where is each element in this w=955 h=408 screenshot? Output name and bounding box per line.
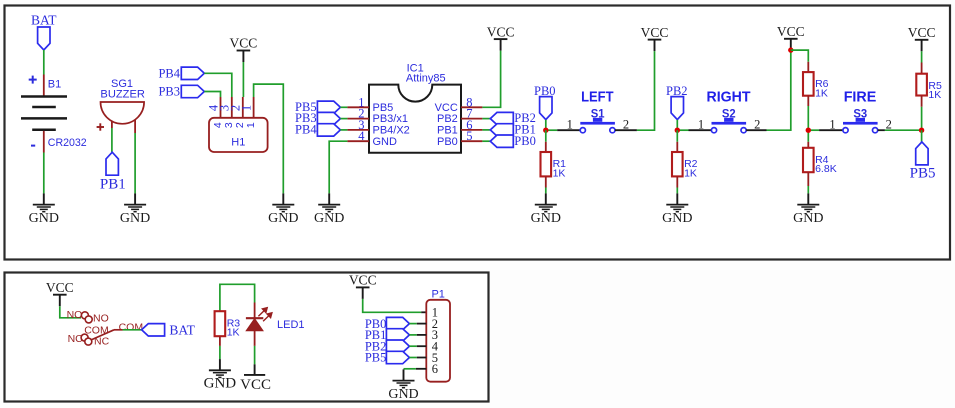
wire PB0 down to node xyxy=(545,120,547,130)
resistor R3 xyxy=(215,311,226,336)
svg-text:PB3/x1: PB3/x1 xyxy=(373,113,408,125)
connector P1 body xyxy=(426,300,450,382)
pin stub P1 pin 5 xyxy=(417,357,427,359)
ground under SG1 xyxy=(120,193,150,226)
wire PB4 flag to IC1 xyxy=(340,129,347,131)
terminal PB3 at IC1 xyxy=(317,112,340,124)
pin stub IC1 pin 5 xyxy=(461,140,482,142)
svg-text:LEFT: LEFT xyxy=(581,89,613,106)
junction VCC/R6 branch xyxy=(788,47,793,52)
terminal PB0 at IC1 xyxy=(490,135,513,147)
wire S3 pin 2 to node PB5 xyxy=(885,129,922,131)
push button S3 contact 2 xyxy=(873,128,878,133)
power VCC at P1 xyxy=(349,273,377,299)
wire H1 pin 1 to ground xyxy=(254,84,284,193)
svg-text:BUZZER: BUZZER xyxy=(100,89,145,101)
svg-text:PB4: PB4 xyxy=(158,66,180,80)
pin stub S1 pin 2 xyxy=(615,129,637,131)
power VCC at H1 xyxy=(230,36,258,62)
pin stub IC1 pin 1 xyxy=(347,106,369,108)
junction R6/R4/S3 xyxy=(806,128,811,133)
resistor R4 xyxy=(803,148,814,172)
svg-text:S2: S2 xyxy=(722,107,736,121)
svg-text:1: 1 xyxy=(698,118,704,132)
terminal PB2 above S2 xyxy=(671,97,683,120)
pin stub P1 pin 3 xyxy=(417,334,427,336)
terminal PB1 at IC1 xyxy=(490,124,513,136)
terminal PB0 above S1 xyxy=(540,97,552,120)
wire IC1 GND pin to ground xyxy=(329,141,347,193)
svg-text:1K: 1K xyxy=(553,167,566,179)
svg-text:1K: 1K xyxy=(928,89,941,101)
pin stub IC1 pin 6 xyxy=(461,129,482,131)
switch contact NC pole 2 xyxy=(85,338,92,345)
wire S1 pin 2 to VCC xyxy=(637,51,655,130)
svg-text:PB4/X2: PB4/X2 xyxy=(373,125,410,137)
resistor R1 xyxy=(541,152,552,176)
svg-text:PB0: PB0 xyxy=(437,136,458,148)
push button S1 actuator xyxy=(580,118,615,125)
junction S3/R5/PB5 xyxy=(919,128,924,133)
LED1 light arrows xyxy=(258,308,272,322)
pin stub IC1 pin 3 xyxy=(347,129,369,131)
ground under IC1 xyxy=(314,193,344,226)
svg-text:GND: GND xyxy=(204,376,237,392)
svg-text:VCC: VCC xyxy=(46,280,74,295)
wire B1 negative to ground xyxy=(43,153,45,194)
pin stub R6 top xyxy=(807,62,809,72)
pin stub R2 bottom xyxy=(676,176,678,187)
terminal PB5 at IC1 xyxy=(317,101,340,113)
pin stub IC1 pin 8 xyxy=(461,106,482,108)
ground under R2 xyxy=(662,193,692,226)
svg-text:GND: GND xyxy=(388,387,418,402)
pin stub R3 bottom xyxy=(219,336,221,346)
wire PB3 flag to IC1 xyxy=(340,118,347,120)
svg-text:PB2: PB2 xyxy=(666,84,688,98)
svg-text:PB1: PB1 xyxy=(437,125,458,137)
pin stub R5 bottom xyxy=(921,96,923,107)
diode LED1 body xyxy=(246,318,263,331)
ground under R1 xyxy=(531,193,561,226)
power VCC at switch xyxy=(46,280,74,306)
wire BAT to B1 positive xyxy=(43,50,45,75)
wire R1 to ground xyxy=(545,188,547,194)
terminal PB5 at P1 xyxy=(386,351,409,363)
svg-text:1: 1 xyxy=(829,118,835,132)
wire node to S3 pin 1 xyxy=(808,129,819,131)
power VCC at IC1 xyxy=(487,24,515,50)
battery B1 minus sign xyxy=(31,145,35,147)
ground under R3 xyxy=(204,359,237,392)
wire IC1 to PB2 flag xyxy=(482,118,490,120)
wire PB5 flag to P1 pin 5 xyxy=(409,357,416,359)
pin stub IC1 pin 7 xyxy=(461,118,482,120)
pin stub S3 pin 2 xyxy=(878,129,885,131)
svg-text:PB4: PB4 xyxy=(295,123,317,137)
svg-text:BAT: BAT xyxy=(31,13,57,28)
svg-text:CR2032: CR2032 xyxy=(48,137,87,149)
svg-text:VCC: VCC xyxy=(487,24,515,39)
power VCC below LED1 xyxy=(240,364,271,393)
terminal PB0 at P1 xyxy=(386,317,409,329)
svg-text:VCC: VCC xyxy=(908,25,936,40)
wire buzzer to PB1 xyxy=(111,128,113,152)
svg-text:1K: 1K xyxy=(684,167,697,179)
svg-text:PB5: PB5 xyxy=(365,351,387,365)
svg-text:BAT: BAT xyxy=(169,322,195,337)
pin stub S3 pin 1 xyxy=(819,129,843,131)
wire PB0 flag to P1 pin 2 xyxy=(409,323,416,325)
terminal PB2 at P1 xyxy=(386,340,409,352)
connector H1 body xyxy=(209,118,268,152)
svg-text:NO: NO xyxy=(67,309,83,321)
buzzer SG1 body xyxy=(101,102,145,124)
svg-text:COM: COM xyxy=(119,321,144,333)
push button S3 actuator xyxy=(843,118,878,125)
wire R5 to node xyxy=(921,107,923,130)
pin stub H1 pin 2 xyxy=(242,97,244,118)
switch actuator arm xyxy=(91,330,114,340)
pin stub H1 pin 1 xyxy=(253,97,255,118)
svg-text:VCC: VCC xyxy=(240,377,271,393)
wire VCC to R5 xyxy=(921,51,923,62)
terminal PB5 below R5 xyxy=(916,142,928,165)
pin stub R4 bottom xyxy=(807,172,809,186)
svg-text:GND: GND xyxy=(373,136,398,148)
svg-text:PB3: PB3 xyxy=(158,85,180,99)
switch contact NO pole 2 xyxy=(85,316,92,323)
power VCC at S1 xyxy=(641,25,669,51)
svg-text:6: 6 xyxy=(432,362,438,376)
switch contact NO pole 1 xyxy=(81,312,88,319)
svg-text:1K: 1K xyxy=(815,88,828,100)
svg-text:B1: B1 xyxy=(48,79,61,91)
push button S3 contact 1 xyxy=(843,128,848,133)
pin stub B1 negative xyxy=(43,131,45,153)
pin stub P1 pin 1 xyxy=(421,311,426,313)
ground under P1 xyxy=(388,369,418,402)
svg-text:4: 4 xyxy=(212,122,224,128)
pin stub H1 pin 4 xyxy=(220,97,222,118)
wire IC1 to PB0 flag xyxy=(482,140,490,142)
svg-text:GND: GND xyxy=(29,211,59,226)
terminal PB2 at IC1 xyxy=(490,112,513,124)
svg-text:VCC: VCC xyxy=(435,102,458,114)
terminal PB1 at P1 xyxy=(386,329,409,341)
terminal PB4 at H1 xyxy=(181,67,204,79)
pin stub IC1 pin 2 xyxy=(347,118,369,120)
svg-text:PB1: PB1 xyxy=(100,176,126,192)
pin stub R1 bottom xyxy=(545,176,547,187)
push button S1 contact 1 xyxy=(580,128,585,133)
svg-text:1: 1 xyxy=(239,105,253,111)
pin stub B1 positive xyxy=(43,75,45,97)
buzzer SG1 plus sign xyxy=(97,123,104,130)
svg-text:1K: 1K xyxy=(227,327,240,339)
ground under H1 pin 1 xyxy=(268,193,298,226)
wire PB3 to H1 pin 4 xyxy=(204,92,220,98)
battery B1 plus sign xyxy=(29,76,37,84)
wire switch COM to BAT xyxy=(123,329,142,331)
pin stub S2 pin 2 xyxy=(746,129,766,131)
wire S2 pin 2 to VCC xyxy=(767,50,791,130)
wire IC1 to PB1 flag xyxy=(482,129,490,131)
wire R6 to node xyxy=(807,106,809,130)
wire node to R1 xyxy=(545,130,547,142)
wire R2 to ground xyxy=(676,188,678,194)
svg-text:4: 4 xyxy=(358,129,365,143)
power VCC at S2/R6 xyxy=(777,24,805,50)
battery B1 plates xyxy=(21,97,67,130)
wire LED1 to VCC rail xyxy=(254,346,256,364)
wire VCC junction to R6 xyxy=(791,50,809,62)
svg-text:P1: P1 xyxy=(431,289,444,301)
pin stub P1 pin 2 xyxy=(417,323,427,325)
svg-text:H1: H1 xyxy=(231,136,245,148)
wire IC1 VCC pin to power xyxy=(482,51,500,108)
svg-text:PB2: PB2 xyxy=(437,113,458,125)
svg-text:VCC: VCC xyxy=(349,273,377,288)
terminal BAT at switch xyxy=(142,324,165,336)
terminal PB4 at IC1 xyxy=(317,124,340,136)
svg-text:Attiny85: Attiny85 xyxy=(406,73,446,85)
svg-text:5: 5 xyxy=(466,129,472,143)
svg-text:PB5: PB5 xyxy=(373,102,394,114)
wire R3 to ground xyxy=(219,346,221,359)
junction PB2/R2/S2 xyxy=(675,128,680,133)
pin stub buzzer left xyxy=(111,121,113,128)
terminal BAT xyxy=(38,27,50,50)
svg-text:GND: GND xyxy=(662,211,692,226)
svg-text:GND: GND xyxy=(314,211,344,226)
wire node down to PB5 xyxy=(921,130,923,142)
pin stub LED1 top xyxy=(254,303,256,319)
pin stub IC1 pin 4 xyxy=(347,140,369,142)
svg-text:GND: GND xyxy=(268,211,298,226)
bottom sheet border frame xyxy=(5,273,489,402)
wire PB2 flag to P1 pin 4 xyxy=(409,345,416,347)
pin stub R5 top xyxy=(921,63,923,74)
resistor R5 xyxy=(916,74,927,96)
svg-text:VCC: VCC xyxy=(641,25,669,40)
pin stub R6 bottom xyxy=(807,96,809,106)
wire R4 to ground xyxy=(807,186,809,193)
pin stub LED1 bottom xyxy=(254,331,256,346)
pin stub R2 top xyxy=(676,142,678,152)
terminal PB1 xyxy=(106,152,118,175)
svg-text:VCC: VCC xyxy=(230,36,258,51)
wire node to S2 pin 1 xyxy=(677,129,688,131)
push button S1 contact 2 xyxy=(610,128,615,133)
push button S2 actuator xyxy=(712,118,747,125)
wire node to R2 xyxy=(676,130,678,142)
top sheet border frame xyxy=(5,6,951,260)
svg-text:RIGHT: RIGHT xyxy=(707,89,751,106)
wire VCC to switch NO xyxy=(60,306,81,318)
pin stub S2 pin 1 xyxy=(689,129,712,131)
wire node to S1 pin 1 xyxy=(546,129,557,131)
wire buzzer to ground xyxy=(134,133,136,193)
pin stub R4 top xyxy=(807,142,809,148)
svg-text:NO: NO xyxy=(93,312,109,324)
ground under B1 xyxy=(29,193,59,226)
svg-text:FIRE: FIRE xyxy=(844,89,877,106)
power VCC at R5 xyxy=(908,25,936,51)
wire VCC to H1 pin 2 xyxy=(242,62,244,97)
svg-text:GND: GND xyxy=(120,211,150,226)
push button S2 contact 2 xyxy=(741,128,746,133)
resistor R2 xyxy=(672,152,683,176)
svg-text:PB0: PB0 xyxy=(514,134,536,148)
wire VCC to P1 pin 1 xyxy=(363,299,422,312)
wire P1 pin 6 to ground xyxy=(404,368,416,370)
pin stub P1 pin 4 xyxy=(417,345,427,347)
wire node to R4 xyxy=(807,130,809,142)
svg-text:S1: S1 xyxy=(591,107,605,121)
pin stub H1 pin 3 xyxy=(231,97,233,118)
svg-text:GND: GND xyxy=(793,211,823,226)
svg-text:VCC: VCC xyxy=(777,24,805,39)
pin stub buzzer right xyxy=(134,120,136,133)
svg-text:LED1: LED1 xyxy=(277,319,305,331)
svg-text:S3: S3 xyxy=(853,107,867,121)
switch COM stub xyxy=(114,329,123,331)
wire PB2 down to node xyxy=(676,120,678,130)
wire PB5 flag to IC1 xyxy=(340,106,347,108)
svg-text:GND: GND xyxy=(531,211,561,226)
wire PB1 flag to P1 pin 3 xyxy=(409,334,416,336)
pin stub R1 top xyxy=(545,142,547,152)
resistor R6 xyxy=(803,72,814,96)
junction PB0/R1/S1 xyxy=(543,128,548,133)
svg-text:6.8K: 6.8K xyxy=(815,163,837,175)
wire PB4 to H1 pin 3 xyxy=(204,73,232,97)
svg-text:PB0: PB0 xyxy=(534,84,556,98)
svg-text:PB5: PB5 xyxy=(910,166,936,182)
svg-text:1: 1 xyxy=(567,118,573,132)
terminal PB3 at H1 xyxy=(181,85,204,97)
wire R3 to LED1 top link xyxy=(220,284,255,311)
pin stub P1 pin 6 xyxy=(416,368,426,370)
svg-text:1: 1 xyxy=(245,122,257,128)
push button S2 contact 1 xyxy=(711,128,716,133)
switch contact NC pole 1 xyxy=(81,334,88,341)
op IC1 ATtiny85 body xyxy=(369,85,461,153)
ground under R4 xyxy=(793,193,823,226)
pin stub S1 pin 1 xyxy=(557,129,580,131)
